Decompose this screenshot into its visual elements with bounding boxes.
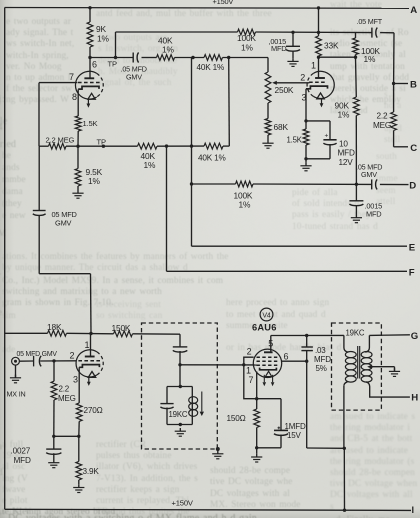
svg-text:270Ω: 270Ω: [84, 406, 103, 415]
svg-text:F: F: [409, 268, 415, 279]
svg-text:05 MFD GMV: 05 MFD GMV: [17, 351, 58, 358]
svg-text:19KC: 19KC: [169, 410, 188, 419]
svg-text:1%: 1%: [364, 54, 376, 64]
svg-text:1%: 1%: [144, 160, 156, 170]
svg-text:1%: 1%: [97, 33, 109, 43]
svg-text:+: +: [325, 132, 329, 139]
svg-text:MFD: MFD: [366, 209, 381, 218]
svg-text:E: E: [409, 242, 416, 253]
svg-text:2.2: 2.2: [377, 112, 388, 121]
svg-text:MEG: MEG: [58, 394, 76, 403]
svg-text:TP: TP: [108, 59, 117, 68]
svg-text:5%: 5%: [316, 364, 327, 373]
svg-text:1.5K: 1.5K: [287, 135, 303, 144]
svg-text:3: 3: [73, 374, 78, 384]
svg-text:1%: 1%: [241, 42, 253, 52]
svg-text:33K: 33K: [324, 41, 339, 51]
svg-text:2: 2: [247, 347, 252, 357]
svg-text:7: 7: [249, 375, 254, 385]
svg-text:12V: 12V: [339, 158, 354, 167]
svg-text:2: 2: [300, 73, 305, 83]
svg-text:V4: V4: [262, 313, 270, 320]
svg-text:D: D: [409, 181, 416, 192]
svg-text:MFD: MFD: [314, 355, 331, 364]
svg-text:68K: 68K: [274, 122, 289, 132]
svg-text:GMV: GMV: [361, 170, 377, 179]
svg-text:A: A: [410, 5, 417, 16]
svg-text:15V: 15V: [287, 431, 302, 440]
svg-text:5: 5: [268, 338, 273, 348]
svg-text:19KC: 19KC: [346, 329, 365, 338]
svg-text:1%: 1%: [88, 176, 100, 186]
svg-text:2.2 MEG: 2.2 MEG: [46, 135, 75, 144]
svg-text:10: 10: [339, 139, 348, 148]
svg-text:MX IN: MX IN: [7, 390, 26, 399]
svg-text:150Ω: 150Ω: [227, 414, 246, 423]
svg-text:MFD: MFD: [14, 456, 31, 465]
svg-text:9K: 9K: [96, 24, 106, 34]
svg-text:6: 6: [284, 352, 289, 362]
svg-text:6: 6: [92, 60, 97, 70]
svg-text:.05 MFT: .05 MFT: [357, 17, 383, 26]
svg-text:MFD: MFD: [338, 149, 355, 158]
svg-text:2: 2: [70, 351, 75, 361]
svg-text:1%: 1%: [239, 200, 251, 210]
svg-text:+150V: +150V: [172, 498, 194, 507]
svg-text:40K 1%: 40K 1%: [198, 153, 226, 162]
svg-text:8: 8: [72, 92, 77, 102]
svg-text:C: C: [410, 143, 417, 154]
svg-text:H: H: [411, 392, 418, 403]
svg-text:MEG: MEG: [373, 121, 391, 130]
svg-text:1: 1: [311, 61, 316, 71]
svg-text:MFD: MFD: [271, 44, 286, 53]
svg-text:2.2: 2.2: [59, 385, 70, 394]
svg-text:6AU6: 6AU6: [252, 323, 277, 333]
svg-text:.03: .03: [315, 346, 326, 355]
svg-text:B: B: [410, 79, 417, 90]
svg-text:+150V: +150V: [213, 0, 234, 6]
svg-text:3.9K: 3.9K: [83, 467, 100, 476]
svg-text:1%: 1%: [338, 110, 350, 120]
svg-text:7: 7: [69, 72, 74, 82]
svg-text:1%: 1%: [162, 45, 174, 55]
svg-text:.0027: .0027: [11, 447, 31, 456]
svg-text:18K: 18K: [47, 322, 62, 332]
svg-text:250K: 250K: [275, 85, 294, 95]
svg-text:1: 1: [85, 340, 90, 350]
svg-text:GMV: GMV: [55, 219, 72, 228]
svg-text:1MFD: 1MFD: [285, 422, 306, 431]
svg-text:40K 1%: 40K 1%: [197, 63, 225, 72]
svg-text:TP: TP: [97, 137, 106, 146]
svg-text:I: I: [412, 505, 414, 515]
svg-text:150K: 150K: [112, 323, 131, 333]
svg-text:1.5K: 1.5K: [83, 119, 98, 128]
svg-text:G: G: [411, 331, 418, 342]
svg-text:GMV: GMV: [126, 73, 142, 82]
